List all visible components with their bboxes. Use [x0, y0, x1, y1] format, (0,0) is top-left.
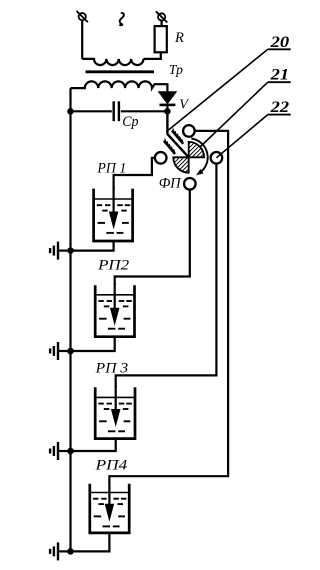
wire RP2 to ground node	[71, 337, 115, 351]
svg-text:РП 1: РП 1	[96, 161, 126, 177]
wire left bus to capacitor	[71, 110, 112, 112]
electrolytic cell RP4	[90, 482, 129, 533]
junction node ground 4	[67, 548, 74, 555]
modulator disc sector top-right (hatched)	[189, 142, 204, 157]
junction node diode / capacitor	[164, 108, 171, 115]
transformer primary winding	[82, 59, 143, 65]
electrolytic cell RP1	[94, 187, 133, 241]
resistor R	[155, 26, 167, 52]
junction node ground 1	[67, 247, 74, 254]
junction node left bus / capacitor	[67, 108, 74, 115]
svg-text:РП 3: РП 3	[95, 360, 129, 376]
wire left bus vertical	[69, 88, 71, 551]
diode V	[158, 91, 178, 111]
wire top photo element to RP4	[109, 131, 228, 484]
wire RP1 to ground node	[71, 241, 114, 251]
wire capacitor to diode node	[121, 110, 168, 112]
electrolytic cell RP2	[95, 283, 134, 337]
svg-text:РП2: РП2	[97, 257, 130, 273]
wire right photo element to RP3	[116, 164, 217, 388]
photo element top (lamp 21)	[183, 125, 195, 137]
transformer core	[86, 70, 155, 73]
svg-text:Ср: Ср	[122, 114, 139, 130]
svg-text:РП4: РП4	[95, 457, 128, 473]
wire diode node to modulator disc	[167, 111, 188, 157]
screen bar lower	[164, 139, 175, 154]
AC tilde symbol	[120, 13, 124, 25]
svg-text:20: 20	[269, 34, 289, 51]
capacitor Cp	[114, 101, 119, 121]
electrolytic cell RP3	[95, 385, 135, 438]
svg-text:R: R	[174, 30, 184, 46]
leader line to item 22	[216, 115, 267, 158]
wire bottom photo element to RP2	[115, 190, 190, 286]
rotation direction arrow	[191, 139, 207, 176]
ground 2	[50, 342, 70, 360]
label 21	[268, 67, 291, 84]
leader line to item 21	[201, 82, 268, 146]
wire left terminal to primary	[81, 20, 83, 59]
ground 1	[50, 242, 70, 260]
leader line to item 20	[169, 49, 268, 130]
svg-text:V: V	[179, 98, 189, 113]
wire left photo element to RP1	[114, 158, 155, 189]
junction node ground 2	[67, 348, 74, 355]
label 22	[268, 99, 291, 116]
svg-text:Тр: Тр	[169, 63, 183, 78]
ground 4	[50, 542, 70, 560]
junction node ground 3	[67, 448, 74, 455]
terminal left (AC input)	[77, 11, 88, 22]
wire RP3 to ground node	[71, 439, 116, 451]
modulator disc sector bottom-left (hatched)	[173, 157, 188, 172]
label 20	[268, 34, 291, 51]
terminal right (AC input)	[156, 11, 167, 22]
svg-text:ФП: ФП	[159, 176, 182, 192]
svg-text:22: 22	[269, 99, 289, 116]
photo element right (item 22)	[211, 152, 223, 164]
ground 3	[50, 442, 70, 460]
photo element bottom (FP)	[184, 178, 196, 190]
photo element left	[155, 152, 167, 164]
svg-text:21: 21	[269, 67, 289, 84]
wire resistor to primary	[144, 52, 161, 59]
screen bar upper (item 20)	[172, 128, 183, 143]
wire RP4 to ground node	[71, 533, 110, 552]
wire right terminal to resistor	[161, 21, 163, 27]
transformer secondary winding	[71, 81, 168, 91]
